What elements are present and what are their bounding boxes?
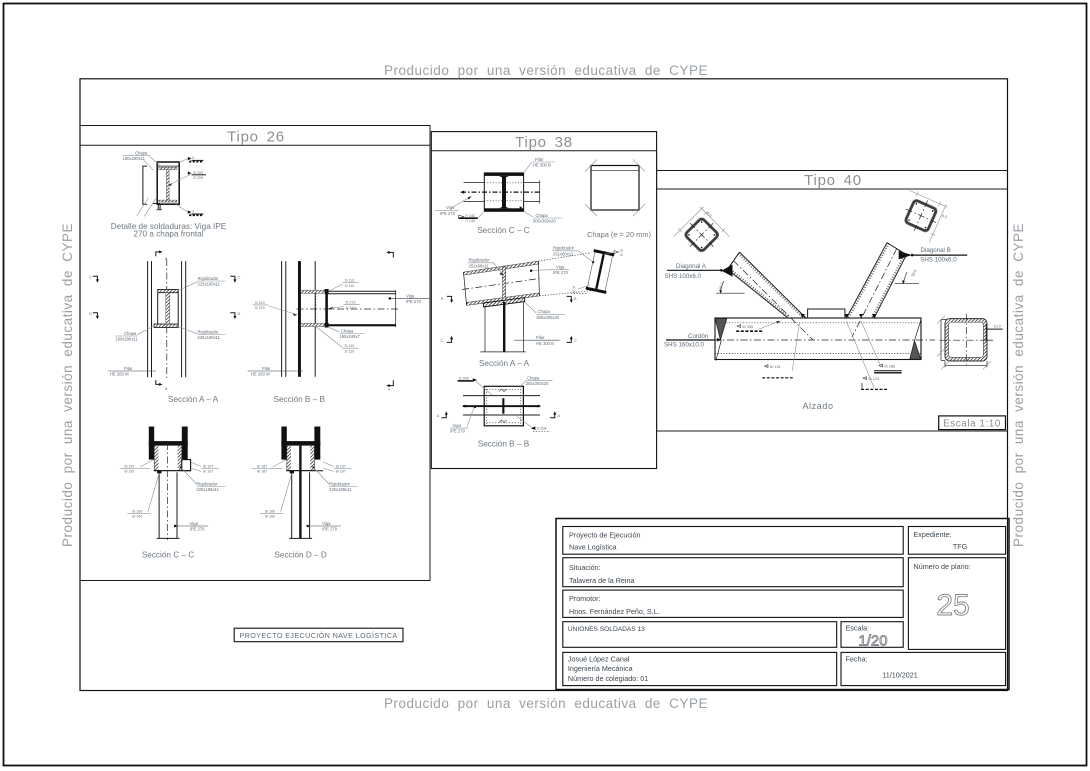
svg-text:IPE 270: IPE 270 [450, 429, 466, 434]
A arrow bottom right [389, 380, 393, 385]
title block row1 left box [563, 527, 903, 555]
svg-text:8\ 187: 8\ 187 [257, 464, 267, 468]
svg-text:7/ 140: 7/ 140 [465, 219, 475, 223]
svg-text:Cordón: Cordón [688, 333, 709, 340]
weld detail left bracket [143, 166, 147, 204]
svg-text:Tipo 40: Tipo 40 [804, 172, 862, 189]
Tipo 40 panel border [657, 151, 1008, 431]
svg-text:3/ 219: 3/ 219 [255, 306, 265, 310]
beam web thick [463, 405, 540, 407]
svg-text:Talavera de la Reina: Talavera de la Reina [569, 576, 635, 585]
svg-text:Producido por una versión educ: Producido por una versión educativa de C… [1011, 223, 1026, 547]
svg-text:10.0: 10.0 [994, 324, 1001, 328]
weld flag 6-124 [863, 377, 867, 380]
gusset bracket between diagonals [808, 309, 845, 318]
web cavity hatch [287, 445, 291, 470]
svg-text:3/ 209: 3/ 209 [193, 176, 203, 180]
diagonal B left edge [847, 243, 888, 318]
svg-text:HE 260 M: HE 260 M [251, 372, 270, 377]
svg-text:HE 260 M: HE 260 M [110, 372, 129, 377]
weld detail web hatch [166, 170, 169, 201]
svg-text:Nave Logística: Nave Logística [569, 543, 617, 552]
top flange bar [484, 173, 523, 176]
weld detail top flange line [157, 165, 179, 167]
inclined beam bottom edge hatch [467, 293, 540, 306]
svg-text:Chapa: Chapa [124, 331, 137, 336]
svg-text:PROYECTO EJECUCIÓN NAVE LOGÍST: PROYECTO EJECUCIÓN NAVE LOGÍSTICA [240, 631, 398, 640]
svg-text:3\ 110: 3\ 110 [345, 344, 355, 348]
plate line [154, 470, 191, 472]
beam flange lines [328, 290, 396, 292]
plate rect [484, 386, 523, 426]
Tipo 26 panel border [80, 126, 430, 581]
beam centerline [462, 279, 539, 290]
svg-text:SHS 160x10.0: SHS 160x10.0 [664, 341, 704, 348]
column lines [484, 307, 486, 352]
main drawing frame [80, 79, 1008, 691]
svg-text:8/ 187: 8/ 187 [257, 470, 267, 474]
svg-text:IPE 270: IPE 270 [553, 270, 569, 275]
svg-text:251x60x11: 251x60x11 [469, 263, 490, 268]
svg-text:8\ 160: 8\ 160 [265, 509, 275, 513]
svg-text:3\ 219: 3\ 219 [255, 301, 265, 305]
diagonal B axis [852, 249, 897, 337]
svg-text:6\ 335: 6\ 335 [743, 325, 754, 329]
corner ticks [585, 160, 597, 172]
svg-text:3: 3 [192, 210, 194, 214]
weld symbol S2 [188, 172, 192, 175]
svg-text:C: C [89, 276, 92, 280]
svg-text:8\ 107: 8\ 107 [203, 464, 213, 468]
svg-text:D: D [89, 312, 92, 316]
svg-text:Promotor:: Promotor: [569, 594, 601, 603]
beam lines right [524, 182, 540, 184]
web vertical bar [502, 176, 506, 208]
diagonal B right edge [874, 255, 906, 318]
svg-text:Sección B – B: Sección B – B [478, 440, 530, 449]
svg-text:Chapa: Chapa [536, 213, 549, 218]
svg-text:Viga: Viga [556, 265, 565, 270]
svg-text:Diagonal B: Diagonal B [921, 247, 951, 254]
D arrow right [230, 313, 235, 317]
svg-text:Josué López Canal: Josué López Canal [568, 655, 630, 664]
B marker right [567, 296, 572, 300]
Tipo 40 header band lines [657, 170, 1008, 172]
svg-text:Ingeniería Mecánica: Ingeniería Mecánica [568, 664, 633, 673]
svg-text:Sección C – C: Sección C – C [142, 551, 194, 560]
svg-text:305x300x20: 305x300x20 [526, 381, 549, 386]
svg-text:D: D [238, 312, 241, 316]
svg-text:Chapa: Chapa [341, 328, 354, 333]
svg-text:Pilar: Pilar [124, 366, 133, 371]
svg-text:Escala:: Escala: [846, 624, 870, 633]
svg-text:IPE 270: IPE 270 [406, 299, 422, 304]
svg-text:Sección C – C: Sección C – C [477, 226, 529, 235]
step notch right [182, 460, 191, 471]
diagonal A right edge [740, 252, 807, 318]
right dim line [539, 181, 541, 204]
title block expediente box [908, 527, 1005, 555]
Tipo 38 header band line [431, 150, 656, 152]
svg-text:8/ 187: 8/ 187 [125, 470, 135, 474]
svg-text:SHS 100x6.0: SHS 100x6.0 [920, 256, 957, 263]
beam centerline [297, 308, 399, 310]
SHS A section diamond [672, 205, 731, 264]
weld detail bottom weld hatch [159, 200, 177, 202]
svg-text:HE 300 B: HE 300 B [533, 163, 551, 168]
chapa label leaders [150, 157, 161, 167]
Tipo 26 header band line [80, 144, 430, 146]
svg-text:8/ 107: 8/ 107 [336, 470, 346, 474]
svg-text:8\ 187: 8\ 187 [125, 464, 135, 468]
beam outline [463, 395, 540, 397]
svg-text:Alzado: Alzado [802, 401, 833, 411]
small I profile rotated [585, 249, 614, 294]
title block numero de plano box [908, 558, 1005, 650]
left flange bar [281, 427, 286, 460]
svg-text:Sección D – D: Sección D – D [274, 551, 326, 560]
beam lines left [464, 182, 485, 184]
column centerline [166, 259, 168, 379]
chord tube outline [715, 318, 921, 360]
svg-text:190x248x7: 190x248x7 [339, 334, 360, 339]
svg-text:Pilar: Pilar [262, 366, 271, 371]
svg-text:8/ 107: 8/ 107 [203, 470, 213, 474]
svg-text:Producido por una versión educ: Producido por una versión educativa de C… [384, 63, 708, 78]
svg-text:3/: 3/ [620, 253, 623, 257]
cavity outline [154, 445, 182, 470]
diagonal A axis [734, 261, 814, 340]
C marker right [567, 338, 572, 342]
svg-text:SHS 100x6.0: SHS 100x6.0 [665, 273, 702, 280]
svg-text:225x199x11: 225x199x11 [196, 487, 219, 492]
svg-text:3\ 110: 3\ 110 [345, 279, 355, 283]
right flange bar [182, 427, 188, 460]
web horizontal bar [149, 441, 188, 445]
svg-text:3\ 209: 3\ 209 [193, 171, 203, 175]
right flange bar [314, 427, 320, 460]
svg-text:Viga: Viga [453, 423, 462, 428]
H-section outline [484, 173, 523, 211]
weld detail diagonal break lines [137, 198, 149, 216]
Tipo 38 panel border [431, 132, 656, 469]
chord right break triangle [910, 341, 921, 360]
svg-text:Hnos. Fernández Peño, S.L.: Hnos. Fernández Peño, S.L. [569, 607, 660, 616]
svg-text:HE 300 B: HE 300 B [536, 341, 554, 346]
plate inner line [591, 169, 639, 171]
weld flag 6-131 [765, 365, 769, 368]
svg-text:Producido por una versión educ: Producido por una versión educativa de C… [384, 696, 708, 711]
weld flag top right of profile [614, 251, 619, 254]
title block outer [556, 519, 1009, 690]
end plate thick bar [325, 290, 328, 327]
dotted lines across [484, 182, 523, 184]
svg-text:225x199x11: 225x199x11 [198, 282, 221, 287]
chord centerline [700, 339, 935, 341]
svg-text:3/: 3/ [573, 290, 576, 294]
svg-text:305x300x20: 305x300x20 [536, 315, 559, 320]
svg-text:3/ 110: 3/ 110 [345, 350, 355, 354]
dotted interior [486, 386, 488, 426]
svg-text:Expediente:: Expediente: [914, 530, 952, 539]
column lines [281, 261, 283, 377]
svg-text:TFG: TFG [953, 542, 968, 551]
svg-text:270 a chapa frontal: 270 a chapa frontal [133, 230, 203, 239]
C arrow right [230, 276, 235, 280]
dotted leaders to profile [538, 253, 591, 261]
weld zigzag top [499, 389, 507, 392]
A marker right [550, 414, 555, 418]
svg-text:Sección A – A: Sección A – A [168, 395, 219, 404]
column chapa thick bar [298, 261, 301, 377]
svg-text:IPE 270: IPE 270 [322, 527, 338, 532]
center dashdot thick [461, 191, 541, 193]
weld marks on chord top [801, 314, 805, 318]
title block author box [563, 652, 837, 685]
svg-text:Viga: Viga [446, 205, 455, 210]
svg-text:IPE 270: IPE 270 [440, 211, 456, 216]
svg-text:3/ 219: 3/ 219 [346, 306, 356, 310]
svg-text:190x290x11: 190x290x11 [115, 336, 138, 341]
svg-text:Pilar: Pilar [536, 335, 545, 340]
B arrow bottom [156, 380, 160, 384]
weld flag 6-335 [737, 325, 741, 328]
svg-text:Rigidizador: Rigidizador [198, 329, 220, 334]
svg-text:Viga: Viga [190, 521, 199, 526]
svg-text:Chapa: Chapa [135, 150, 148, 155]
svg-text:IPE 270: IPE 270 [190, 527, 206, 532]
svg-text:8\ 160: 8\ 160 [132, 509, 142, 513]
beam right end line [538, 261, 539, 296]
svg-text:3/ 110: 3/ 110 [345, 284, 355, 288]
svg-text:3\ 219: 3\ 219 [346, 301, 356, 305]
left flange bar [149, 427, 154, 460]
A arrow top right [389, 252, 393, 257]
svg-text:6\ 131: 6\ 131 [770, 365, 781, 369]
svg-text:Sección B – B: Sección B – B [274, 395, 326, 404]
web horizontal bar [281, 441, 320, 445]
title block escala box [841, 622, 903, 648]
bottom flange bar [484, 208, 523, 211]
svg-text:160x290x11: 160x290x11 [123, 156, 146, 161]
weld symbol S3 [188, 211, 192, 214]
title block row2 left box [563, 558, 903, 587]
svg-text:Viga: Viga [406, 294, 415, 299]
weld detail chapa tail below [153, 203, 160, 205]
weld detail top weld hatch [159, 167, 177, 169]
svg-text:Chapa (e = 20 mm): Chapa (e = 20 mm) [587, 230, 651, 239]
svg-text:Diagonal A: Diagonal A [676, 263, 707, 270]
svg-text:Chapa: Chapa [527, 376, 540, 381]
plate line [286, 470, 323, 472]
svg-text:225x199x11: 225x199x11 [198, 335, 221, 340]
connection box bottom stiffener bar [154, 324, 178, 328]
svg-text:6\ 288: 6\ 288 [885, 364, 896, 368]
title block promotor box [563, 590, 903, 617]
svg-text:Viga: Viga [322, 521, 331, 526]
title block fecha box [841, 652, 1006, 685]
chord inner wall dotted [715, 322, 921, 324]
left dim line [940, 320, 942, 361]
svg-text:25: 25 [936, 589, 969, 622]
svg-text:Rigidizador: Rigidizador [198, 276, 220, 281]
svg-text:Número de colegiado: 01: Número de colegiado: 01 [568, 674, 648, 683]
weld black squares [157, 471, 161, 474]
stiffener strip [503, 267, 506, 302]
title block uniones box [563, 622, 837, 648]
beam left end line [464, 272, 467, 305]
svg-text:Tipo 26: Tipo 26 [227, 129, 285, 146]
diagonal A left edge hatch band [728, 269, 789, 318]
svg-text:Situación:: Situación: [569, 563, 601, 572]
svg-text:Pilar: Pilar [535, 157, 544, 162]
B arrow top [156, 252, 160, 256]
svg-text:3: 3 [192, 156, 194, 160]
inclined beam top edge hatch [464, 261, 539, 275]
svg-text:Rigidizador: Rigidizador [196, 481, 218, 486]
diagonal A end cap [728, 252, 740, 269]
svg-text:Número de plano:: Número de plano: [914, 562, 971, 571]
web cavity hatch left [154, 445, 158, 470]
svg-text:Sección A – A: Sección A – A [479, 359, 530, 368]
center web vertical bar [299, 445, 301, 538]
svg-text:UNIONES SOLDADAS 13: UNIONES SOLDADAS 13 [568, 626, 645, 633]
svg-text:8/ 160: 8/ 160 [132, 515, 142, 519]
PROYECTO box [234, 628, 403, 642]
svg-text:C: C [238, 276, 241, 280]
chord left break triangle [715, 319, 727, 340]
10.0 dim [986, 328, 1003, 330]
connection box B-B [301, 290, 326, 293]
diagonal B end weld triangle [899, 251, 912, 260]
connection box sides [157, 293, 159, 324]
svg-text:305x300x20: 305x300x20 [533, 219, 556, 224]
svg-text:C: C [574, 339, 577, 343]
chord cross-section [937, 314, 1003, 370]
svg-text:Chapa: Chapa [538, 309, 551, 314]
plate weld vertical bar [502, 398, 504, 414]
diagonal A end weld triangle [722, 265, 733, 277]
SHS B section diamond [893, 188, 948, 243]
beam web lines below [291, 472, 293, 538]
svg-text:8\ 107: 8\ 107 [336, 464, 346, 468]
chapa plate dark band [484, 298, 525, 307]
svg-text:251x60x11: 251x60x11 [553, 251, 574, 256]
svg-text:11/10/2021: 11/10/2021 [882, 671, 917, 680]
weld flag bottom right [531, 426, 535, 430]
svg-text:3\ 308: 3\ 308 [537, 427, 547, 431]
web fillets [498, 176, 510, 180]
plate square [591, 166, 639, 211]
svg-text:3\ 308: 3\ 308 [459, 376, 469, 380]
bottom dim line [945, 364, 987, 366]
weld S2 leader arrow to web [170, 175, 191, 185]
svg-text:Proyecto de Ejecución: Proyecto de Ejecución [569, 531, 641, 540]
connection box web hatch [166, 293, 170, 324]
weld flag 7 140 [459, 215, 464, 218]
svg-text:Tipo 38: Tipo 38 [515, 134, 573, 151]
svg-text:Escala 1:10: Escala 1:10 [943, 418, 1001, 429]
svg-text:Fecha:: Fecha: [846, 655, 868, 664]
Escala 1:10 box [939, 416, 1006, 430]
weld detail beam outline [157, 162, 179, 204]
column lines [147, 261, 149, 377]
svg-text:8/ 160: 8/ 160 [265, 515, 275, 519]
svg-text:Producido por una versión educ: Producido por una versión educativa de C… [60, 223, 75, 547]
web cavity hatch right [178, 445, 182, 470]
diagonal B end cap [887, 243, 907, 255]
svg-text:C: C [441, 339, 444, 343]
weld symbol S1 [188, 157, 192, 160]
svg-text:Rigidizador: Rigidizador [553, 246, 575, 251]
connection box top stiffener bar [158, 289, 179, 292]
weld flag 6-288 [879, 364, 883, 367]
svg-text:1/20: 1/20 [858, 633, 887, 650]
svg-text:Rigidizador: Rigidizador [329, 481, 351, 486]
beam web lines below [158, 472, 160, 538]
svg-text:Rigidizador: Rigidizador [469, 258, 491, 263]
svg-text:225x199x11: 225x199x11 [329, 487, 352, 492]
